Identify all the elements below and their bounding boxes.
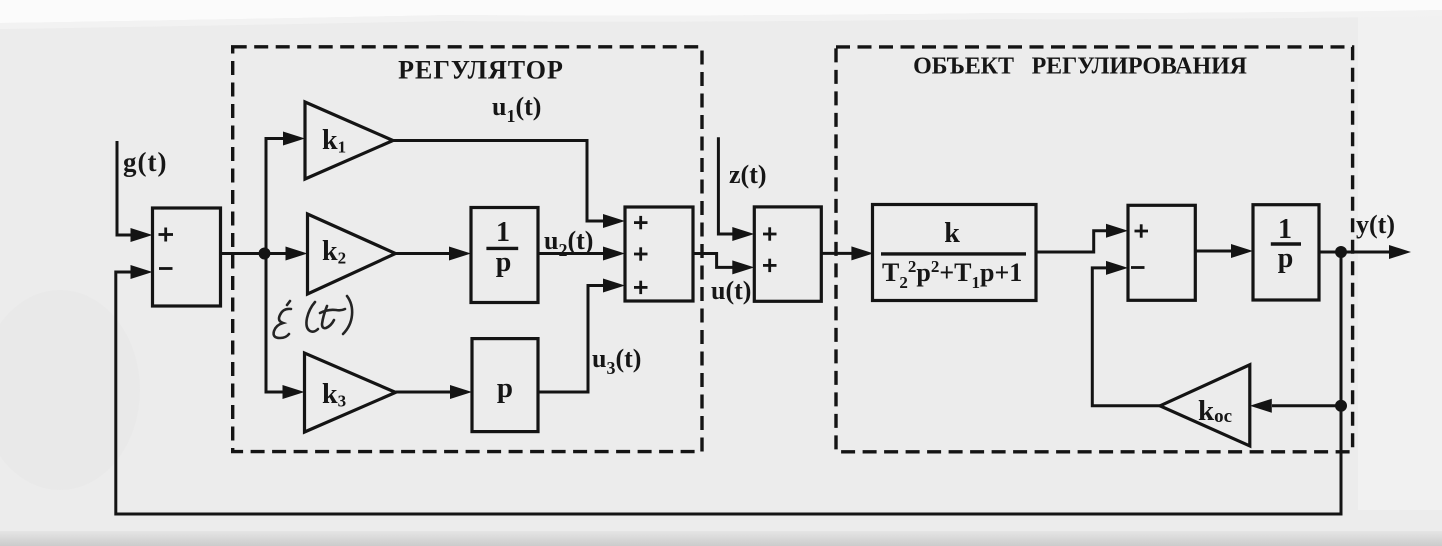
amplifier k2 — [308, 214, 396, 294]
dashed box ОБЪЕКТ РЕГУЛИРОВАНИЯ — [836, 47, 1353, 452]
wire node to k3 — [266, 254, 305, 400]
wire S4 to integrator2 — [1195, 244, 1253, 258]
svg-text:u(t): u(t) — [711, 276, 751, 305]
wire g(t) input — [117, 141, 153, 242]
label S1 plus — [159, 228, 174, 242]
dashed box РЕГУЛЯТОР — [233, 47, 702, 452]
wire output y(t) — [1319, 245, 1411, 259]
svg-text:y(t): y(t) — [1356, 210, 1395, 239]
svg-text:u2(t): u2(t) — [544, 226, 593, 260]
svg-text:z(t): z(t) — [729, 160, 767, 189]
labels S3 plus signs — [763, 227, 777, 272]
wire S2 to S3 (u) — [693, 254, 754, 275]
label S1 minus — [159, 267, 173, 270]
svg-text:1: 1 — [496, 217, 510, 248]
labels S2 plus signs — [634, 216, 648, 294]
wire k1 to S2 (u1) — [393, 141, 625, 229]
svg-text:p: p — [496, 247, 512, 278]
svg-text:u3(t): u3(t) — [592, 344, 641, 378]
node A error signal — [259, 248, 271, 260]
svg-text:p: p — [497, 372, 513, 404]
integrator block 1/p second — [1253, 205, 1319, 300]
amplifier koc — [1160, 365, 1250, 446]
wire S3 to W1 — [821, 246, 873, 260]
wire k3 to differentiator — [396, 385, 472, 399]
differentiator block p — [472, 339, 538, 432]
wire tap to koc — [1250, 399, 1341, 413]
label eps(t) handwritten — [274, 296, 353, 338]
svg-text:РЕГУЛЯТОР: РЕГУЛЯТОР — [398, 56, 564, 85]
integrator block 1/p — [471, 208, 538, 303]
wire k2 to integrator — [396, 247, 472, 261]
svg-text:u1(t): u1(t) — [492, 92, 541, 126]
label S4 plus — [1135, 224, 1149, 237]
W1 fraction bar — [881, 252, 1026, 255]
label S4 minus — [1131, 266, 1145, 269]
amplifier k1 — [305, 102, 393, 179]
wire S1 output to k2 — [221, 247, 308, 261]
wire u2 to S2 — [538, 247, 625, 261]
summer S4 — [1128, 205, 1195, 300]
block W1 k/(T2^2 p^2 + T1 p + 1) — [873, 205, 1037, 301]
wire node to k1 — [266, 132, 305, 254]
summer S3 — [754, 207, 821, 301]
svg-text:ОБЪЕКТ РЕГУЛИРОВАНИЯ: ОБЪЕКТ РЕГУЛИРОВАНИЯ — [913, 54, 1247, 80]
wire global feedback — [116, 252, 1341, 514]
wire u3 to S2 — [538, 279, 625, 393]
wire koc to S4 minus — [1092, 261, 1160, 406]
svg-text:g(t): g(t) — [123, 147, 167, 177]
wire z(t) input — [718, 137, 754, 241]
summer S1 — [153, 208, 221, 306]
wire W1 to S4 plus — [1036, 224, 1128, 252]
node koc tap — [1335, 400, 1347, 412]
svg-text:k: k — [944, 218, 960, 249]
node y output — [1335, 246, 1347, 258]
svg-text:1: 1 — [1278, 214, 1292, 245]
amplifier k3 — [305, 353, 396, 432]
summer S2 — [625, 207, 693, 301]
svg-text:p: p — [1278, 243, 1294, 274]
